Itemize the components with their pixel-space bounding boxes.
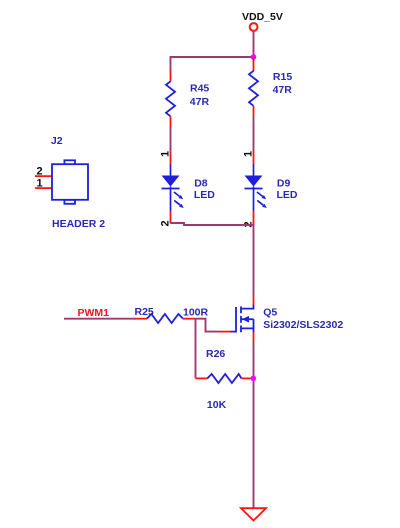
wire VDD to junction [253,31,255,57]
svg-text:47R: 47R [190,96,210,108]
svg-text:R25: R25 [135,306,154,318]
LED D9 symbol [245,165,267,212]
resistor R45 body [166,81,175,116]
resistor R45 pin 2 [170,116,172,128]
LED D8 symbol [162,165,184,212]
transistor Q5 source pin [253,332,255,342]
resistor R26 body [207,374,241,383]
svg-text:LED: LED [194,189,215,201]
transistor Q5 drain pin [253,296,255,305]
wire source to ground rail [253,341,255,508]
power port VDD_5V circle [250,23,258,31]
svg-text:Si2302/SLS2302: Si2302/SLS2302 [263,319,343,331]
transistor Q5 symbol [231,304,254,332]
svg-text:VDD_5V: VDD_5V [242,11,283,23]
resistor R15 pin 1 [253,60,255,72]
resistor R25 pin 2 [183,318,195,320]
wire bottom of LED branches [171,223,254,225]
resistor R25 body [147,314,183,323]
resistor R26 pin 1 [196,377,208,379]
connector J2 pin 1 [35,187,53,189]
svg-text:2: 2 [37,166,43,178]
LED D8 pin 2 [170,211,172,224]
svg-text:LED: LED [277,189,298,201]
wire down to R26 [195,319,197,379]
svg-text:HEADER 2: HEADER 2 [52,218,105,230]
svg-text:R26: R26 [206,348,225,360]
wire PWM1 [64,318,136,320]
connector J2 pin 2 [35,175,53,177]
svg-text:J2: J2 [51,135,63,147]
wire left branch mid [170,128,172,153]
resistor R45 pin 1 [170,70,172,82]
transistor Q5 gate pin [219,331,231,333]
ground [241,508,266,520]
junction dot top [251,54,257,60]
LED D9 pin 1 [253,153,255,166]
resistor R26 pin 2 [241,377,252,379]
wire right rail to Q5 drain [253,224,255,297]
svg-text:R15: R15 [273,71,292,83]
wire gate jog [195,319,220,332]
wire left branch top [170,56,172,70]
svg-text:1: 1 [37,178,43,190]
wire right branch mid [253,116,255,153]
resistor R15 pin 2 [253,106,255,116]
svg-text:D8: D8 [194,177,208,189]
svg-text:D9: D9 [277,177,291,189]
LED D8 pin 1 [170,153,172,166]
LED D9 pin 2 [253,211,255,225]
resistor R25 pin 1 [135,318,148,320]
resistor R15 body [249,71,258,106]
junction dot R26 [251,376,257,382]
svg-text:10K: 10K [207,399,227,411]
svg-text:Q5: Q5 [263,307,277,319]
svg-text:47R: 47R [273,84,293,96]
svg-text:R45: R45 [190,82,209,94]
svg-text:PWM1: PWM1 [78,307,110,319]
wire top horizontal [170,56,254,58]
svg-text:100R: 100R [183,307,209,319]
connector J2 body [52,160,88,204]
wire right branch below junction [253,57,255,61]
